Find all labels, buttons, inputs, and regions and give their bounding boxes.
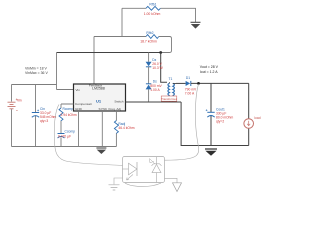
- svg-text:7.00 A: 7.00 A: [185, 91, 195, 95]
- svg-text:Rfb1: Rfb1: [149, 3, 156, 7]
- resistor Rfb1: [144, 3, 161, 16]
- wire opto to earth ground: [114, 178, 123, 184]
- wire clamp middle: [148, 67, 150, 84]
- svg-text:1.00 A: 1.00 A: [150, 88, 160, 92]
- transformer T1: [168, 77, 176, 102]
- svg-text:GND: GND: [75, 107, 83, 111]
- wire Radj to rail: [115, 134, 117, 147]
- wire clamp bottom: [148, 89, 150, 102]
- svg-text:Transformer: Transformer: [161, 97, 177, 101]
- wire bottom rail: [12, 146, 117, 148]
- wire opto bottom loop: [125, 183, 161, 186]
- wire feedback node: [94, 37, 146, 85]
- ground (top right): [191, 22, 201, 28]
- wire Rfb1 to ground: [161, 8, 196, 22]
- wire Vin source top: [11, 85, 13, 102]
- capacitor Ccomp: [58, 129, 76, 138]
- wire Rcomp to Ccomp: [60, 121, 62, 134]
- wire Rfb2 to Vin node: [159, 37, 172, 53]
- wire Vin node line: [57, 52, 161, 54]
- svg-text:Vout = 28 V: Vout = 28 V: [200, 65, 219, 69]
- wire compensation sense curve: [54, 105, 122, 166]
- ground (main rail): [96, 148, 106, 154]
- svg-text:qty=2: qty=2: [216, 119, 224, 123]
- svg-text:VinMin = 18 V: VinMin = 18 V: [25, 67, 47, 71]
- wire load right edge: [248, 83, 250, 145]
- wire GND pin: [78, 111, 80, 147]
- source Vin: [8, 98, 22, 110]
- svg-text:VinMax = 36 V: VinMax = 36 V: [25, 71, 48, 75]
- wire Ccomp to rail: [60, 138, 62, 147]
- ground earth (opto): [109, 185, 120, 190]
- wire Vin rail: [12, 53, 74, 90]
- capacitor Cin: [32, 107, 57, 123]
- svg-text:Ccomp: Ccomp: [65, 129, 76, 133]
- svg-text:Freq. Adj: Freq. Adj: [109, 107, 122, 111]
- diode Ds: [146, 79, 163, 92]
- resistor Radj: [114, 121, 134, 134]
- diode Dz: [146, 58, 164, 70]
- diode D1: [185, 76, 197, 95]
- opto feedback block U2: [123, 157, 165, 183]
- wire SYNC pin: [101, 111, 103, 147]
- wire opto right lower pin: [165, 178, 178, 182]
- annotation output spec: [200, 65, 219, 74]
- svg-text:Vin: Vin: [76, 88, 81, 92]
- wire output top: [191, 82, 249, 84]
- svg-text:qty=3: qty=3: [40, 119, 48, 123]
- svg-text:D1: D1: [186, 76, 190, 80]
- svg-text:T1: T1: [169, 77, 173, 81]
- svg-text:10.3 W: 10.3 W: [152, 66, 163, 70]
- op-amp U1 LM2588: [74, 84, 126, 112]
- svg-text:Rcomp: Rcomp: [63, 107, 74, 111]
- wire clamp top: [148, 53, 150, 62]
- annotation input spec: [25, 67, 48, 76]
- svg-text:18.7 kOhm: 18.7 kOhm: [140, 40, 157, 44]
- ground open arrow: [173, 183, 182, 192]
- resistor Rfb2: [140, 31, 159, 44]
- resistor Rcomp: [59, 107, 77, 121]
- label Transformer: [161, 96, 177, 101]
- opto LED: [123, 162, 138, 180]
- capacitor Cout1: [206, 108, 234, 124]
- wire feedback sense curve: [165, 84, 199, 160]
- svg-text:1.00 kOhm: 1.00 kOhm: [144, 12, 161, 16]
- svg-text:SYNC: SYNC: [99, 107, 108, 111]
- wire output bottom: [181, 102, 249, 146]
- ground (output): [205, 149, 217, 156]
- wire Rfb1 left drop: [122, 8, 146, 36]
- svg-text:LM2588: LM2588: [92, 86, 105, 90]
- node junction at Vin line: [159, 51, 162, 54]
- wire compensation: [61, 104, 74, 108]
- node output junction: [197, 82, 200, 85]
- wire Cout1 stub: [210, 83, 212, 145]
- svg-text:Compensati: Compensati: [75, 102, 92, 106]
- load: [244, 116, 261, 128]
- wire Cin stub: [35, 85, 37, 147]
- svg-text:U1: U1: [96, 99, 102, 104]
- wire Vin node to transformer: [161, 53, 167, 83]
- zener TL431: [150, 157, 162, 183]
- wire Vin source bottom: [11, 109, 13, 146]
- svg-text:Switch: Switch: [114, 100, 123, 104]
- wire secondary to D1: [176, 82, 186, 84]
- svg-text:Iout = 1.2 A: Iout = 1.2 A: [200, 70, 218, 74]
- svg-text:46.4 kOhm: 46.4 kOhm: [118, 126, 134, 130]
- svg-text:0.470 µF: 0.470 µF: [58, 135, 71, 139]
- wire Freq Adj pin: [115, 111, 117, 121]
- wire switch node: [125, 101, 181, 103]
- svg-text:Rfb2: Rfb2: [146, 31, 153, 35]
- svg-text:2.94 kOhm: 2.94 kOhm: [61, 113, 77, 117]
- svg-text:Ds: Ds: [153, 79, 157, 83]
- svg-text:load: load: [254, 116, 260, 120]
